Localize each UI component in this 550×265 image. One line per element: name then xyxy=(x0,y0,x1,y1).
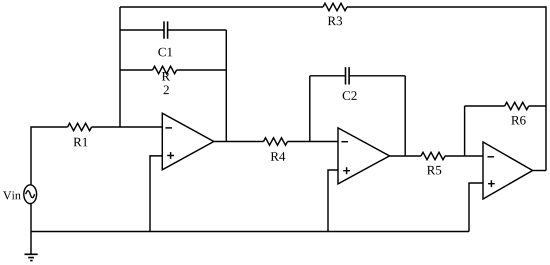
wire: Vin up to R1 xyxy=(31,127,68,185)
resistor R4 xyxy=(264,138,288,161)
wire: R6 left vertical from U3 inverting input xyxy=(464,106,466,156)
resistor R3 xyxy=(323,3,347,25)
op-amp U1 xyxy=(162,113,214,170)
op-amp U2 xyxy=(338,128,390,184)
wire: right vertical, R3 down to U3 output xyxy=(545,6,547,170)
wire: node A vertical, top feedback down to U1 inverting input xyxy=(119,7,121,127)
wire: R6 branch, right segment xyxy=(529,105,546,107)
wire: R6 branch, left segment xyxy=(465,105,505,107)
op-amp U3 xyxy=(483,142,533,199)
wire: Vin down to ground bus xyxy=(30,204,32,232)
wire: U2 output to R5 xyxy=(390,155,422,157)
wire: R2 branch, left segment xyxy=(120,69,153,71)
wire: ground bus xyxy=(31,231,469,233)
resistor R1 xyxy=(68,123,92,146)
wire: U2 non-inverting input to ground bus xyxy=(328,170,338,232)
wire: R2 branch, right segment xyxy=(177,69,227,71)
wire: C1 branch, right segment xyxy=(168,29,227,31)
capacitor C2 xyxy=(343,67,357,100)
wire: C2 left vertical from U2 inverting input xyxy=(309,76,311,142)
resistor R5 xyxy=(421,152,445,174)
wire: R4 to U2 inverting input xyxy=(288,141,339,143)
wire: U3 non-inverting input to ground bus xyxy=(469,183,483,232)
source Vin (AC) xyxy=(3,185,37,204)
wire: U3 output to right vertical xyxy=(533,170,546,172)
wire: R1 to node A and U1 inverting input xyxy=(92,126,163,128)
capacitor C1 xyxy=(158,21,172,56)
wire: C1 branch, left segment xyxy=(120,29,164,31)
wire: C2 right vertical down to U2 output xyxy=(404,76,406,156)
resistor R6 xyxy=(505,102,529,124)
wire: U1 output to R4 xyxy=(214,141,264,143)
ground xyxy=(25,254,38,260)
resistor R2 (label wrapped R / 2) xyxy=(153,66,177,94)
wire: right vertical of C1/R2 block down to U1 output xyxy=(225,30,227,142)
wire: top feedback, node A to R3 xyxy=(120,6,323,8)
wire: U1 non-inverting input to ground bus xyxy=(150,156,162,232)
wire: C2 branch, right segment xyxy=(349,75,405,77)
wire: C2 branch, left segment xyxy=(310,75,346,77)
wire: R5 to U3 inverting input xyxy=(445,155,483,157)
wire: top feedback, R3 to output node xyxy=(347,6,546,8)
wire: ground stem xyxy=(30,232,32,255)
